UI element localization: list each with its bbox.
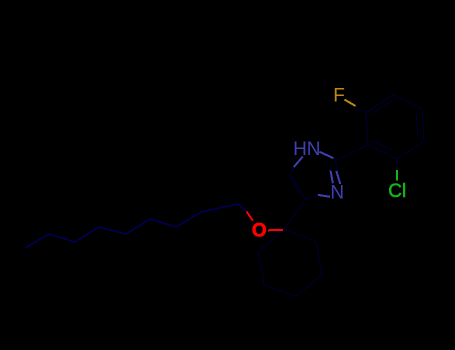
imidazole N3-C4 navy part — [306, 195, 319, 200]
alkyl chain (slightly brighter navy) — [25, 204, 248, 248]
svg-text:Cl: Cl — [388, 181, 406, 202]
bond C2=N3 outer blue half — [336, 171, 340, 184]
nitrogen-colored bond parts (blue) — [294, 152, 341, 197]
bond N1-C5 blue half — [294, 157, 303, 168]
svg-text:HN: HN — [293, 139, 320, 160]
chlorine-colored bond part (green) — [396, 170, 398, 181]
imidazole C4=C5 double bond — [291, 174, 306, 200]
imidazole C5-N1 navy part — [291, 162, 298, 174]
bond C6'-F goldenrod half — [345, 100, 356, 107]
fluorine-colored bond part (goldenrod) — [345, 100, 356, 107]
wire: O to X4 under-draw — [268, 229, 284, 232]
bond O-X2 red half — [247, 212, 253, 221]
bond O-X4 red — [268, 229, 283, 232]
oxygen-colored bond parts (red) — [247, 212, 284, 231]
bond C2'-Cl green half — [396, 170, 398, 181]
bond N3-C4 blue half — [318, 195, 330, 197]
wire: octyl chain zigzag — [25, 204, 238, 248]
svg-text:O: O — [252, 221, 267, 242]
bond C2' to Cl navy half — [396, 159, 398, 170]
bond C2 to aryl ipso C1' — [336, 145, 369, 161]
benzene ring (2-chloro-6-fluorophenyl) — [366, 95, 424, 159]
cyclohexane ring on X4 — [258, 230, 322, 297]
bond C4 to X4 — [284, 200, 306, 230]
bond N1-C2 blue half — [320, 152, 334, 158]
imidazole C2=N3 navy upper parts — [336, 161, 338, 172]
svg-text:F: F — [333, 86, 345, 107]
imidazole N1-C2 navy part — [330, 157, 336, 161]
svg-text:N: N — [330, 183, 344, 204]
ring skeleton bonds (very dark navy) — [258, 95, 424, 297]
bond C2=N3 inner blue half — [331, 171, 333, 184]
bond C6' to F navy half — [356, 106, 367, 113]
benzene inner double bond lines — [372, 140, 393, 150]
wire: chain CH2 (X2) to O navy half — [238, 204, 248, 213]
